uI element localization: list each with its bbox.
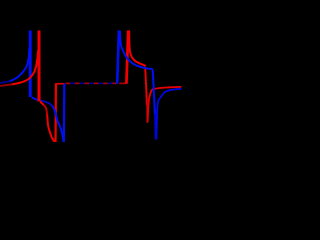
blue curve: right dip rise back: [156, 101, 158, 140]
red curve: left rising branch (dim start): [0, 84, 12, 86]
blue curve: right dip wall down (over red tail): [153, 70, 155, 115]
red curve: left shelf and dive to bottom: [40, 102, 44, 106]
blue curve: left dive to bottom (over red wall): [52, 106, 64, 142]
blue curve: left return wall from -inf: [63, 83, 66, 142]
blue curve: left shelf: [32, 97, 38, 100]
red curve: right dip rise back: [148, 89, 154, 122]
blue curve: right falling shoulder top: [120, 31, 122, 48]
blue curve: right tail to asymptote: [158, 89, 181, 101]
red curve: plateau bright segment: [57, 83, 64, 85]
blue curve: left rising branch (dim start): [0, 81, 10, 83]
red curve: right peak column: [126, 30, 128, 83]
blue curve: right peak column: [117, 30, 119, 83]
red curve: inter-column dark plateau segment: [119, 83, 125, 85]
red curve: right tail to asymptote: [154, 87, 181, 89]
red curve: left return wall from -inf: [54, 83, 57, 142]
red curve: left peak column: [38, 31, 41, 102]
red curve: right dip wall down: [145, 68, 147, 106]
blue curve: right falling shoulder (over red column): [121, 47, 153, 69]
blue curve: left peak column: [29, 31, 32, 98]
plateau dashed zero line: alternating red/blue dashes: [65, 83, 116, 85]
red curve: right falling shoulder: [129, 30, 146, 66]
